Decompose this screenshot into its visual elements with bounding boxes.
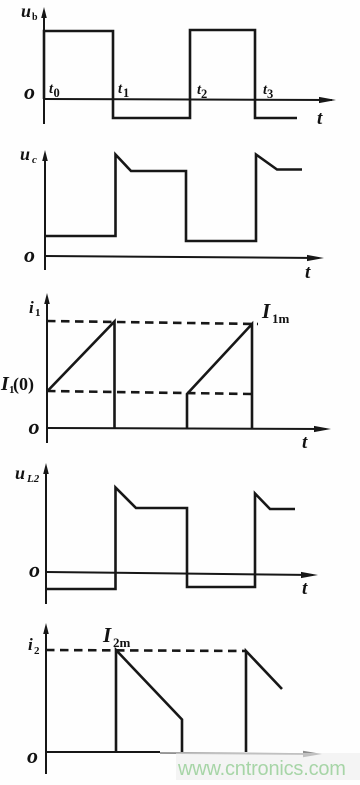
x-axis t (plot 5) black part <box>46 751 160 753</box>
waveform u_b square wave <box>44 30 297 118</box>
y-axis u_b <box>41 7 47 124</box>
svg-text:o: o <box>27 743 38 768</box>
svg-text:b: b <box>32 12 38 23</box>
label t1 <box>118 81 129 100</box>
label I2m <box>102 623 131 650</box>
y-axis i_2 <box>43 623 49 774</box>
x-axis t (plot 5) gray part with arrow <box>160 751 322 758</box>
svg-text:t: t <box>302 578 308 599</box>
dashed level line I1(0) <box>47 391 252 394</box>
svg-text:2: 2 <box>34 645 40 657</box>
svg-text:u: u <box>15 463 25 483</box>
svg-text:3: 3 <box>267 87 273 101</box>
x-axis t (plot 4) <box>46 572 318 578</box>
waveform i_2 tooth 2 <box>246 651 282 752</box>
svg-text:(0): (0) <box>13 374 34 395</box>
svg-text:t: t <box>317 108 323 129</box>
x-axis t (plot 1) <box>44 97 336 103</box>
y-axis u_c <box>42 150 48 270</box>
svg-text:c: c <box>32 154 37 166</box>
dashed level line I1m <box>47 321 258 324</box>
label i_1 <box>29 298 41 319</box>
svg-text:0: 0 <box>54 86 60 100</box>
svg-text:o: o <box>29 414 40 439</box>
label i_2 <box>28 635 40 657</box>
label I1(0) <box>0 373 34 396</box>
waveform i_1 ramp 1 <box>48 322 115 429</box>
svg-text:L2: L2 <box>26 473 40 485</box>
svg-text:1: 1 <box>123 86 129 100</box>
waveform u_L2 with spikes <box>46 488 295 590</box>
watermark band <box>176 753 360 780</box>
svg-text:t: t <box>302 432 308 453</box>
label u_c <box>20 144 37 166</box>
dashed level line I2m <box>46 650 246 651</box>
svg-text:I: I <box>102 623 112 647</box>
y-axis i_1 <box>44 293 50 443</box>
svg-text:u: u <box>20 144 30 164</box>
label t3 <box>263 82 273 101</box>
label u_L2 <box>15 463 40 485</box>
svg-text:1: 1 <box>35 307 41 319</box>
waveform u_c with spikes <box>45 155 302 242</box>
svg-text:2: 2 <box>201 87 207 101</box>
svg-text:u: u <box>21 1 31 21</box>
label t0 <box>49 81 60 100</box>
y-axis u_L2 <box>43 463 49 604</box>
svg-text:www.cntronics.com: www.cntronics.com <box>177 758 346 780</box>
svg-text:I: I <box>261 299 271 323</box>
label t2 <box>197 82 207 101</box>
x-axis t (plot 3) <box>47 426 331 432</box>
svg-text:i: i <box>28 635 33 654</box>
svg-text:i: i <box>29 298 34 317</box>
svg-text:o: o <box>29 557 40 582</box>
svg-text:1m: 1m <box>272 311 290 326</box>
x-axis t (plot 2) <box>45 255 324 261</box>
waveform i_1 ramp 2 <box>187 324 252 428</box>
waveform i_2 tooth 1 <box>116 650 182 752</box>
label u_b <box>21 1 38 23</box>
label I1m <box>261 299 290 326</box>
svg-text:t: t <box>305 262 311 283</box>
svg-text:o: o <box>24 242 35 267</box>
svg-text:o: o <box>24 79 35 104</box>
